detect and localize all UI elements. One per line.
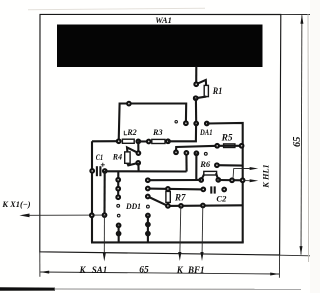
wire DD1 pin to R7 bottom diagonal bbox=[148, 197, 168, 206]
pad DA1 pin bot-mid bbox=[185, 151, 189, 155]
wire rail to DA1 bottom pin bbox=[185, 153, 187, 172]
wire to K BF1 arrow b bbox=[201, 206, 204, 253]
antenna rod WA1 (black bar) bbox=[57, 25, 263, 68]
node DA1 hole bbox=[204, 152, 207, 155]
dimension line right 65 bbox=[300, 15, 303, 254]
svg-text:R4: R4 bbox=[112, 152, 123, 162]
pad rail R6 row bbox=[241, 178, 245, 182]
svg-text:C1: C1 bbox=[96, 152, 103, 162]
wire R7 row bbox=[148, 188, 203, 191]
resistor R4 bbox=[125, 147, 139, 165]
svg-text:DA1: DA1 bbox=[199, 127, 212, 137]
resistor R5 bbox=[224, 144, 235, 148]
pad R5 right bbox=[240, 144, 244, 148]
wire R3 to DA1 pin bbox=[168, 124, 196, 142]
pad DD1 pin r2 bbox=[146, 187, 150, 191]
pad DA1 pin top-mid bbox=[194, 122, 198, 126]
svg-text:R3: R3 bbox=[152, 128, 163, 137]
wire mid rail bbox=[105, 170, 187, 172]
pad DD1 pin l1 bbox=[116, 178, 120, 182]
pad R7 bottom bbox=[166, 204, 170, 208]
resistor R7 bbox=[166, 191, 170, 202]
wire to K SA1 arrow bbox=[103, 215, 105, 252]
wire DD1 right pins to bottom bus bbox=[147, 216, 149, 243]
node DD1 hole l4 bbox=[117, 204, 120, 207]
node DD1 hole r4 bbox=[147, 205, 150, 208]
pad HL1 tap bbox=[215, 163, 219, 167]
wire DD1 right pins row1 to R6 bbox=[148, 179, 201, 181]
wire rod to R1 top pad bbox=[195, 67, 197, 85]
pad DD1 pin r5 bbox=[146, 214, 150, 218]
pad C2 left bbox=[201, 188, 205, 192]
wire to K BF1 arrow a bbox=[179, 206, 182, 252]
pad R6 left bbox=[199, 178, 203, 182]
svg-text:КBF1: КBF1 bbox=[176, 265, 205, 275]
wire bottom row to rail bbox=[168, 204, 243, 207]
pad DD1 pin r1 bbox=[146, 178, 150, 182]
svg-text:К X1(−): К X1(−) bbox=[1, 200, 30, 209]
pad R7 top bbox=[166, 187, 170, 191]
resistor R1 bbox=[196, 80, 209, 98]
pad R4 bottom bbox=[136, 161, 140, 165]
svg-text:КSA1: КSA1 bbox=[79, 265, 108, 275]
pad DD1 pin r3 bbox=[146, 195, 150, 199]
svg-text:R5: R5 bbox=[221, 134, 233, 144]
node DA1 top pin row bbox=[175, 121, 177, 123]
pad R4 top bbox=[137, 151, 141, 155]
wire K X1(-) line bbox=[29, 214, 105, 216]
scan artifact right page edge bbox=[307, 14, 310, 262]
wire R2 row left bbox=[92, 140, 119, 142]
svg-text:R1: R1 bbox=[212, 86, 223, 96]
svg-text:DD1: DD1 bbox=[125, 201, 141, 211]
wire R2 right pad down to R4 bbox=[137, 141, 139, 153]
scan artifact bottom edge bbox=[0, 287, 55, 291]
wire top loop horizontal bbox=[119, 104, 187, 142]
dimension extension line bottom right end bbox=[278, 255, 280, 278]
wire DA1 pin to R5 bbox=[176, 146, 217, 153]
wire R2-R3 bbox=[138, 140, 148, 142]
scan artifact top page edge bbox=[28, 8, 205, 10]
svg-text:65: 65 bbox=[292, 137, 303, 147]
resistor R3 bbox=[152, 139, 165, 143]
pad DD1 pin l2 bbox=[116, 187, 120, 191]
pad C1 right bbox=[103, 169, 107, 173]
wire R4 to ground rail bbox=[137, 163, 139, 172]
pad R3 left bbox=[147, 140, 151, 144]
pad R5 left bbox=[215, 144, 219, 148]
pad R2 left bbox=[117, 139, 121, 143]
dimension extension line bottom left bbox=[39, 252, 41, 277]
pad R3 right bbox=[166, 139, 170, 143]
dimension line bottom 65 bbox=[40, 272, 279, 274]
svg-text:К HL1: К HL1 bbox=[262, 164, 271, 188]
pad BF1 b bbox=[201, 204, 205, 208]
svg-text:WA1: WA1 bbox=[155, 16, 172, 25]
wire C1 right down to X1 line bbox=[103, 171, 105, 215]
wire R1 to DA1 pin bbox=[195, 98, 197, 123]
wire DD1 left pins to bottom bus bbox=[118, 225, 120, 242]
svg-text:R7: R7 bbox=[174, 193, 186, 203]
pad R1 top bbox=[194, 82, 198, 86]
pad DA1 pin bot-right bbox=[195, 151, 199, 155]
pad DD1 pin r6 bbox=[146, 223, 150, 227]
pad R1 bottom bbox=[194, 96, 198, 100]
wire to HL1 upper arrow bbox=[233, 169, 250, 180]
pad R6 row mid bbox=[230, 178, 234, 182]
svg-text:R6: R6 bbox=[199, 159, 211, 169]
node DD1 hole l5 bbox=[117, 214, 120, 217]
pad C2 right bbox=[222, 188, 226, 192]
wire left rail bbox=[91, 141, 93, 242]
pad R2 right bbox=[136, 140, 140, 144]
wire HL1 tap row bbox=[217, 164, 243, 167]
wire DA1 to right rail bbox=[207, 123, 243, 243]
svg-text:R2: R2 bbox=[126, 128, 137, 137]
svg-text:65: 65 bbox=[139, 265, 149, 275]
pad DD1 pin l3 bbox=[116, 195, 120, 199]
dimension extension line bottom right bbox=[280, 254, 310, 257]
wire board bottom bus bbox=[91, 241, 244, 243]
svg-text:C2: C2 bbox=[216, 194, 227, 204]
pad BF1 a bbox=[179, 204, 183, 208]
pad DD1 pin l6 bbox=[117, 224, 121, 228]
board outline frame bbox=[40, 14, 281, 255]
capacitor C2 bbox=[211, 186, 214, 193]
pad X1 to SA1 bbox=[103, 213, 107, 217]
pad DA1 pin top-left bbox=[184, 121, 188, 125]
resistor R6 bbox=[201, 171, 218, 180]
wire DA1 pin down to R6 left bbox=[196, 153, 201, 180]
pad R6 right bbox=[216, 178, 220, 182]
pad X1 on left rail bbox=[90, 213, 94, 217]
wire R6 row to rail bbox=[218, 179, 242, 181]
pad DA1 pin bot-left bbox=[174, 150, 178, 154]
pad C1 left bbox=[90, 169, 94, 173]
resistor R2 bbox=[122, 139, 134, 143]
pad DD1 pin r7 bbox=[146, 232, 150, 236]
capacitor C1 bbox=[97, 163, 105, 176]
pad DD1 pin l7 bbox=[117, 232, 121, 236]
wire R5 leads bbox=[217, 145, 241, 147]
pad on top loop bbox=[127, 102, 131, 106]
wire R7 bottom lead bbox=[167, 202, 169, 206]
wire to HL1 lower arrow bbox=[245, 180, 250, 182]
pad DA1 pin top-right bbox=[205, 122, 209, 126]
dimension extension line top right bbox=[281, 13, 310, 15]
wire rail to DD1 left pins bbox=[117, 172, 119, 198]
